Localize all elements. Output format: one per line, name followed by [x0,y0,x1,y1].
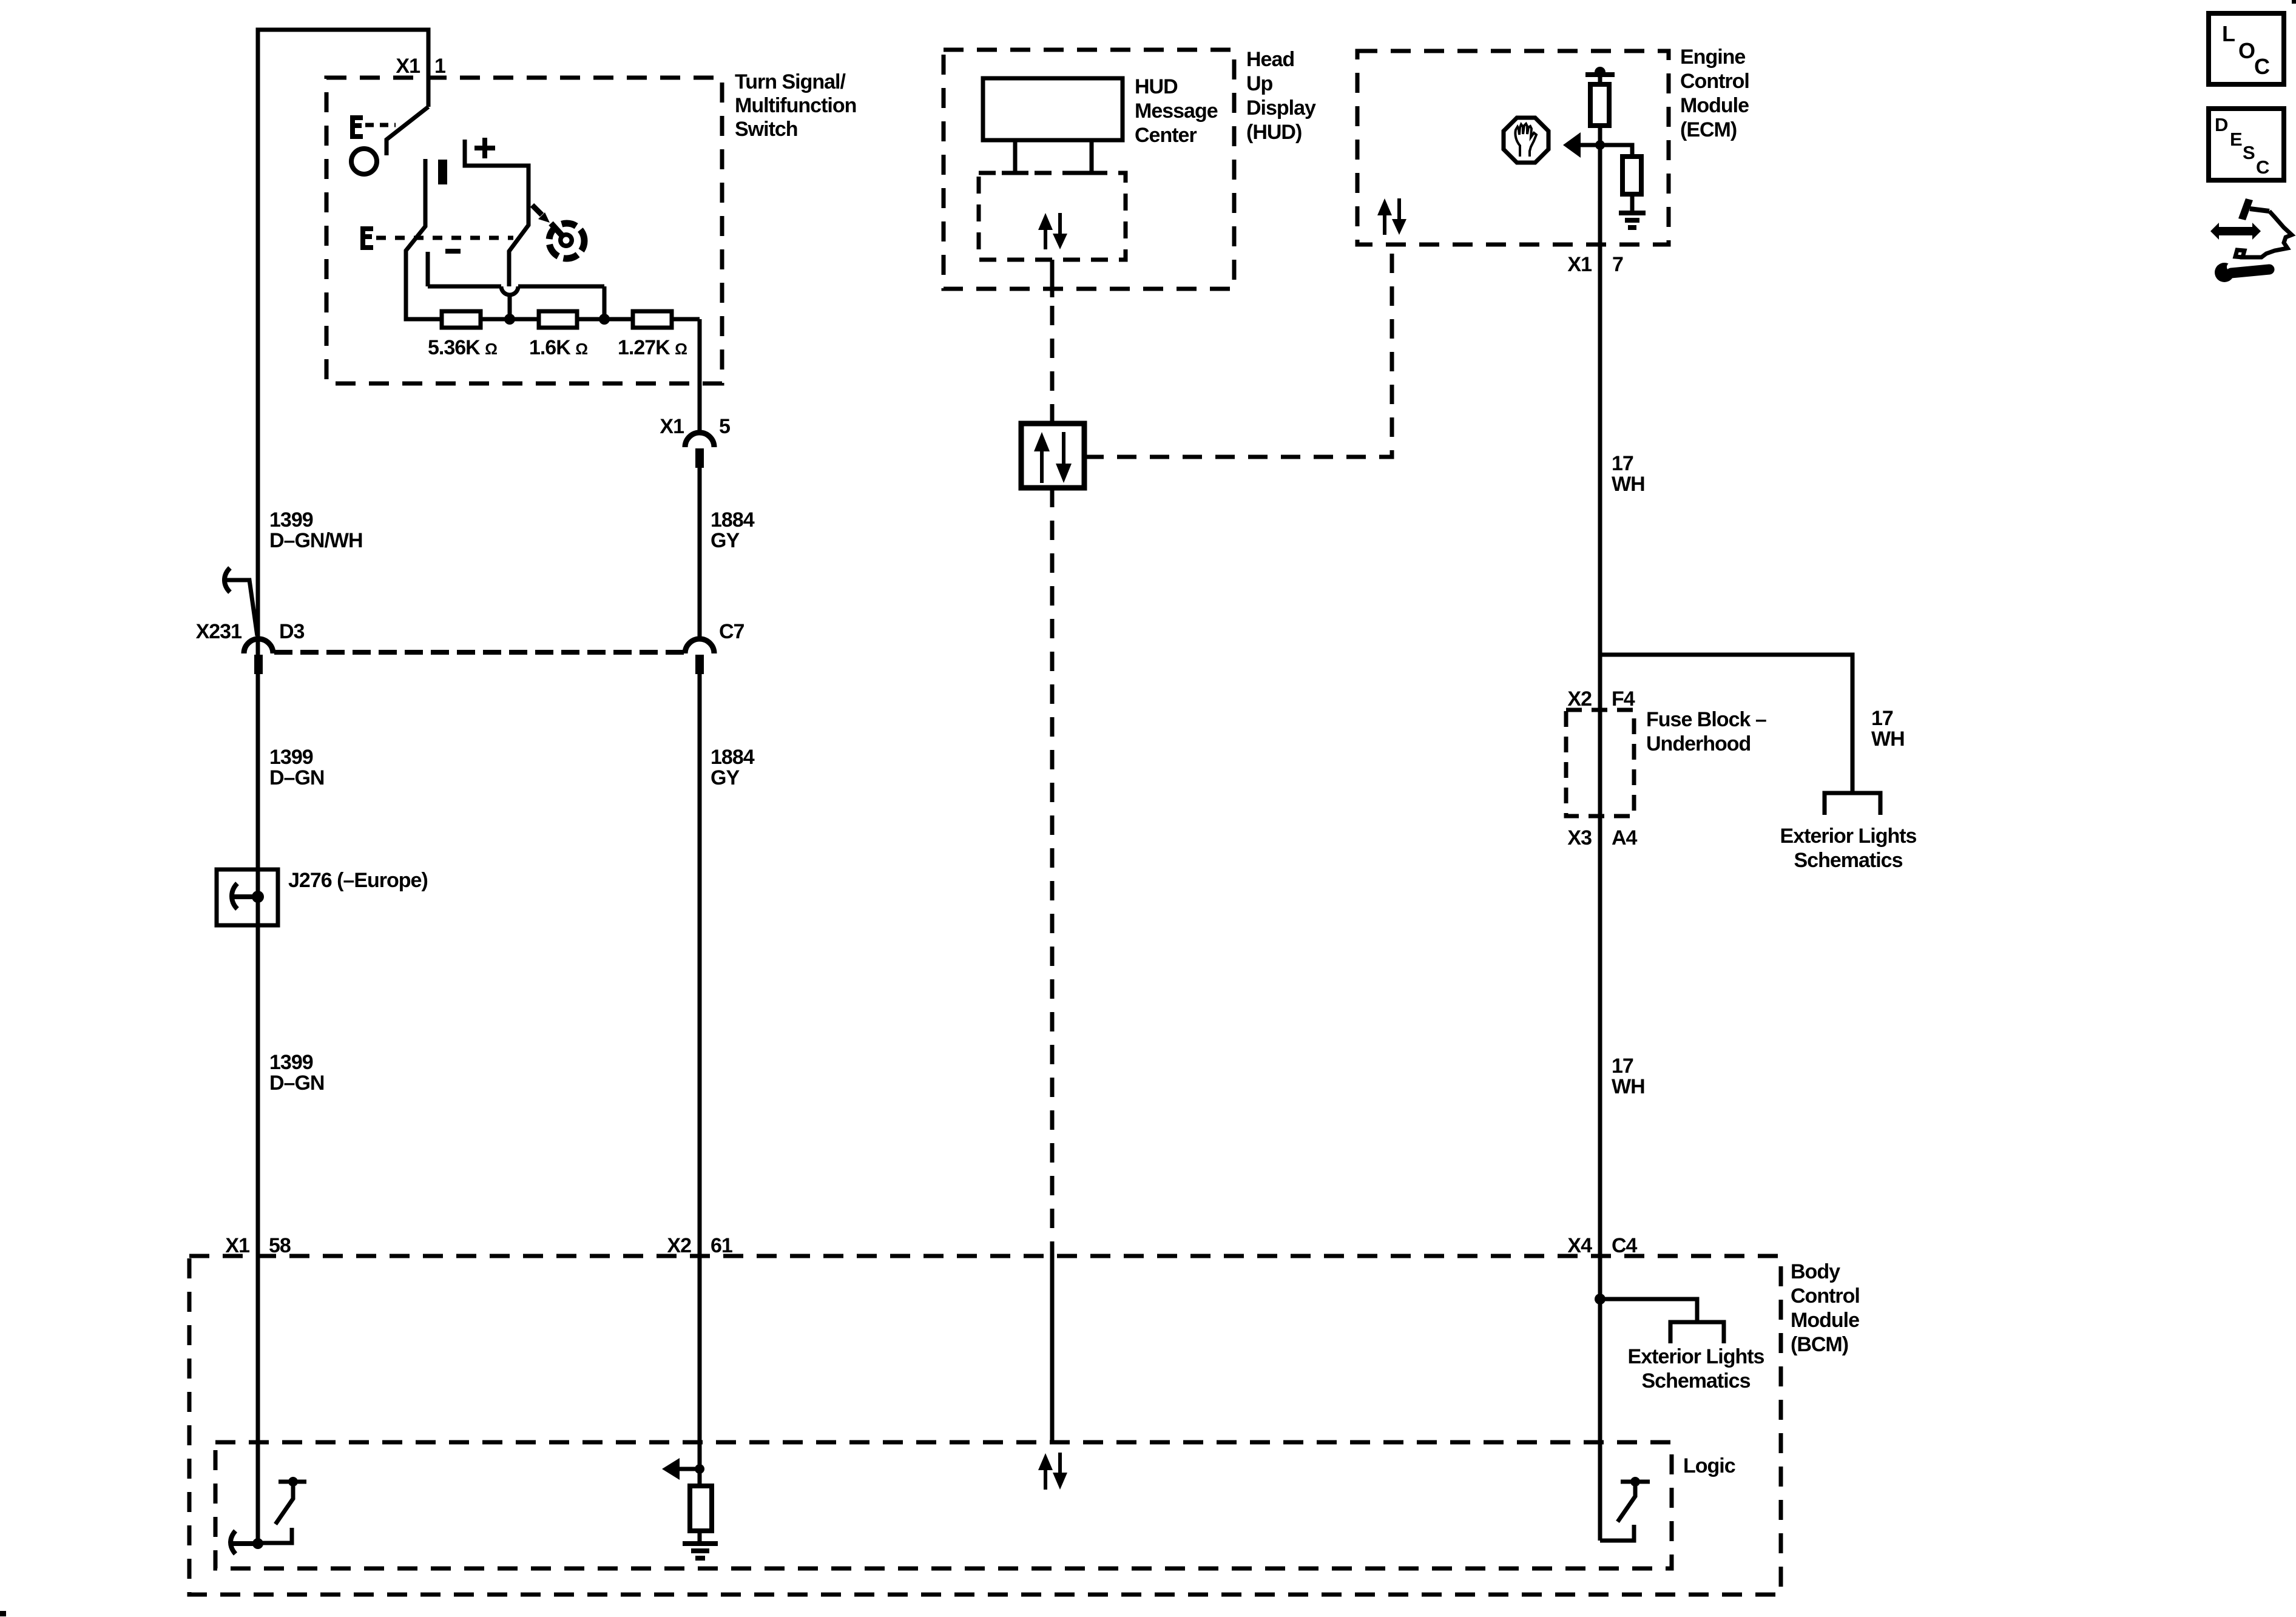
svg-text:(HUD): (HUD) [1246,121,1302,144]
svg-text:1: 1 [434,55,445,78]
svg-text:C4: C4 [1612,1234,1638,1257]
svg-text:C: C [2256,157,2269,178]
svg-text:D3: D3 [279,620,305,643]
svg-text:D: D [2215,114,2228,135]
svg-text:61: 61 [711,1234,732,1257]
svg-text:Engine: Engine [1680,46,1745,69]
svg-text:1.6K Ω: 1.6K Ω [529,336,587,359]
svg-text:GY: GY [711,529,740,552]
svg-text:5.36K Ω: 5.36K Ω [428,336,497,359]
svg-text:(ECM): (ECM) [1680,118,1737,141]
svg-text:Head: Head [1246,48,1294,71]
svg-text:X1: X1 [1567,253,1592,276]
svg-text:Underhood: Underhood [1646,732,1751,755]
svg-text:C: C [2254,54,2270,79]
svg-text:C7: C7 [719,620,745,643]
svg-text:Body: Body [1791,1260,1840,1283]
svg-text:X1: X1 [660,415,684,438]
svg-text:Turn Signal/: Turn Signal/ [735,70,846,93]
svg-text:17: 17 [1612,452,1633,475]
svg-text:X1: X1 [396,55,420,78]
svg-text:Exterior Lights: Exterior Lights [1780,825,1917,848]
svg-text:X3: X3 [1567,826,1592,849]
svg-text:F4: F4 [1612,687,1635,711]
svg-text:5: 5 [719,415,730,438]
svg-text:Control: Control [1791,1284,1860,1308]
svg-text:O: O [2238,38,2255,63]
svg-text:7: 7 [1612,253,1623,276]
svg-text:1884: 1884 [711,746,755,769]
svg-text:HUD: HUD [1135,75,1178,98]
svg-text:E: E [2230,129,2243,150]
svg-text:1399: 1399 [269,746,313,769]
svg-text:1399: 1399 [269,1051,313,1074]
svg-text:WH: WH [1871,727,1905,751]
svg-text:Logic: Logic [1683,1454,1735,1477]
svg-text:A4: A4 [1612,826,1638,849]
svg-text:Display: Display [1246,96,1316,120]
svg-text:D–GN/WH: D–GN/WH [269,529,363,552]
svg-text:1.27K Ω: 1.27K Ω [618,336,687,359]
svg-text:Switch: Switch [735,118,798,141]
svg-text:X1: X1 [225,1234,249,1257]
svg-text:17: 17 [1871,707,1893,730]
svg-text:WH: WH [1612,1075,1645,1098]
svg-text:Schematics: Schematics [1642,1369,1751,1393]
svg-text:L: L [2222,21,2235,46]
svg-text:1884: 1884 [711,508,755,532]
svg-text:X2: X2 [1567,687,1592,711]
svg-text:GY: GY [711,766,740,789]
svg-text:(BCM): (BCM) [1791,1333,1848,1356]
svg-text:58: 58 [269,1234,291,1257]
svg-text:X2: X2 [667,1234,691,1257]
svg-text:D–GN: D–GN [269,1072,324,1095]
svg-text:1399: 1399 [269,508,313,532]
svg-text:Message: Message [1135,100,1218,123]
svg-text:17: 17 [1612,1055,1633,1078]
svg-text:Control: Control [1680,70,1749,93]
svg-text:X231: X231 [196,620,241,643]
svg-text:Multifunction: Multifunction [735,94,856,117]
svg-text:X4: X4 [1567,1234,1592,1257]
svg-text:Center: Center [1135,124,1197,147]
svg-text:S: S [2243,142,2255,163]
svg-text:WH: WH [1612,473,1645,496]
svg-text:Up: Up [1246,72,1273,95]
svg-text:D–GN: D–GN [269,766,324,789]
svg-text:Module: Module [1680,94,1749,117]
svg-text:J276 (–Europe): J276 (–Europe) [288,869,428,892]
svg-text:Exterior Lights: Exterior Lights [1628,1345,1764,1368]
svg-text:Schematics: Schematics [1794,849,1903,872]
svg-text:Module: Module [1791,1309,1859,1332]
svg-text:Fuse Block –: Fuse Block – [1646,708,1766,731]
